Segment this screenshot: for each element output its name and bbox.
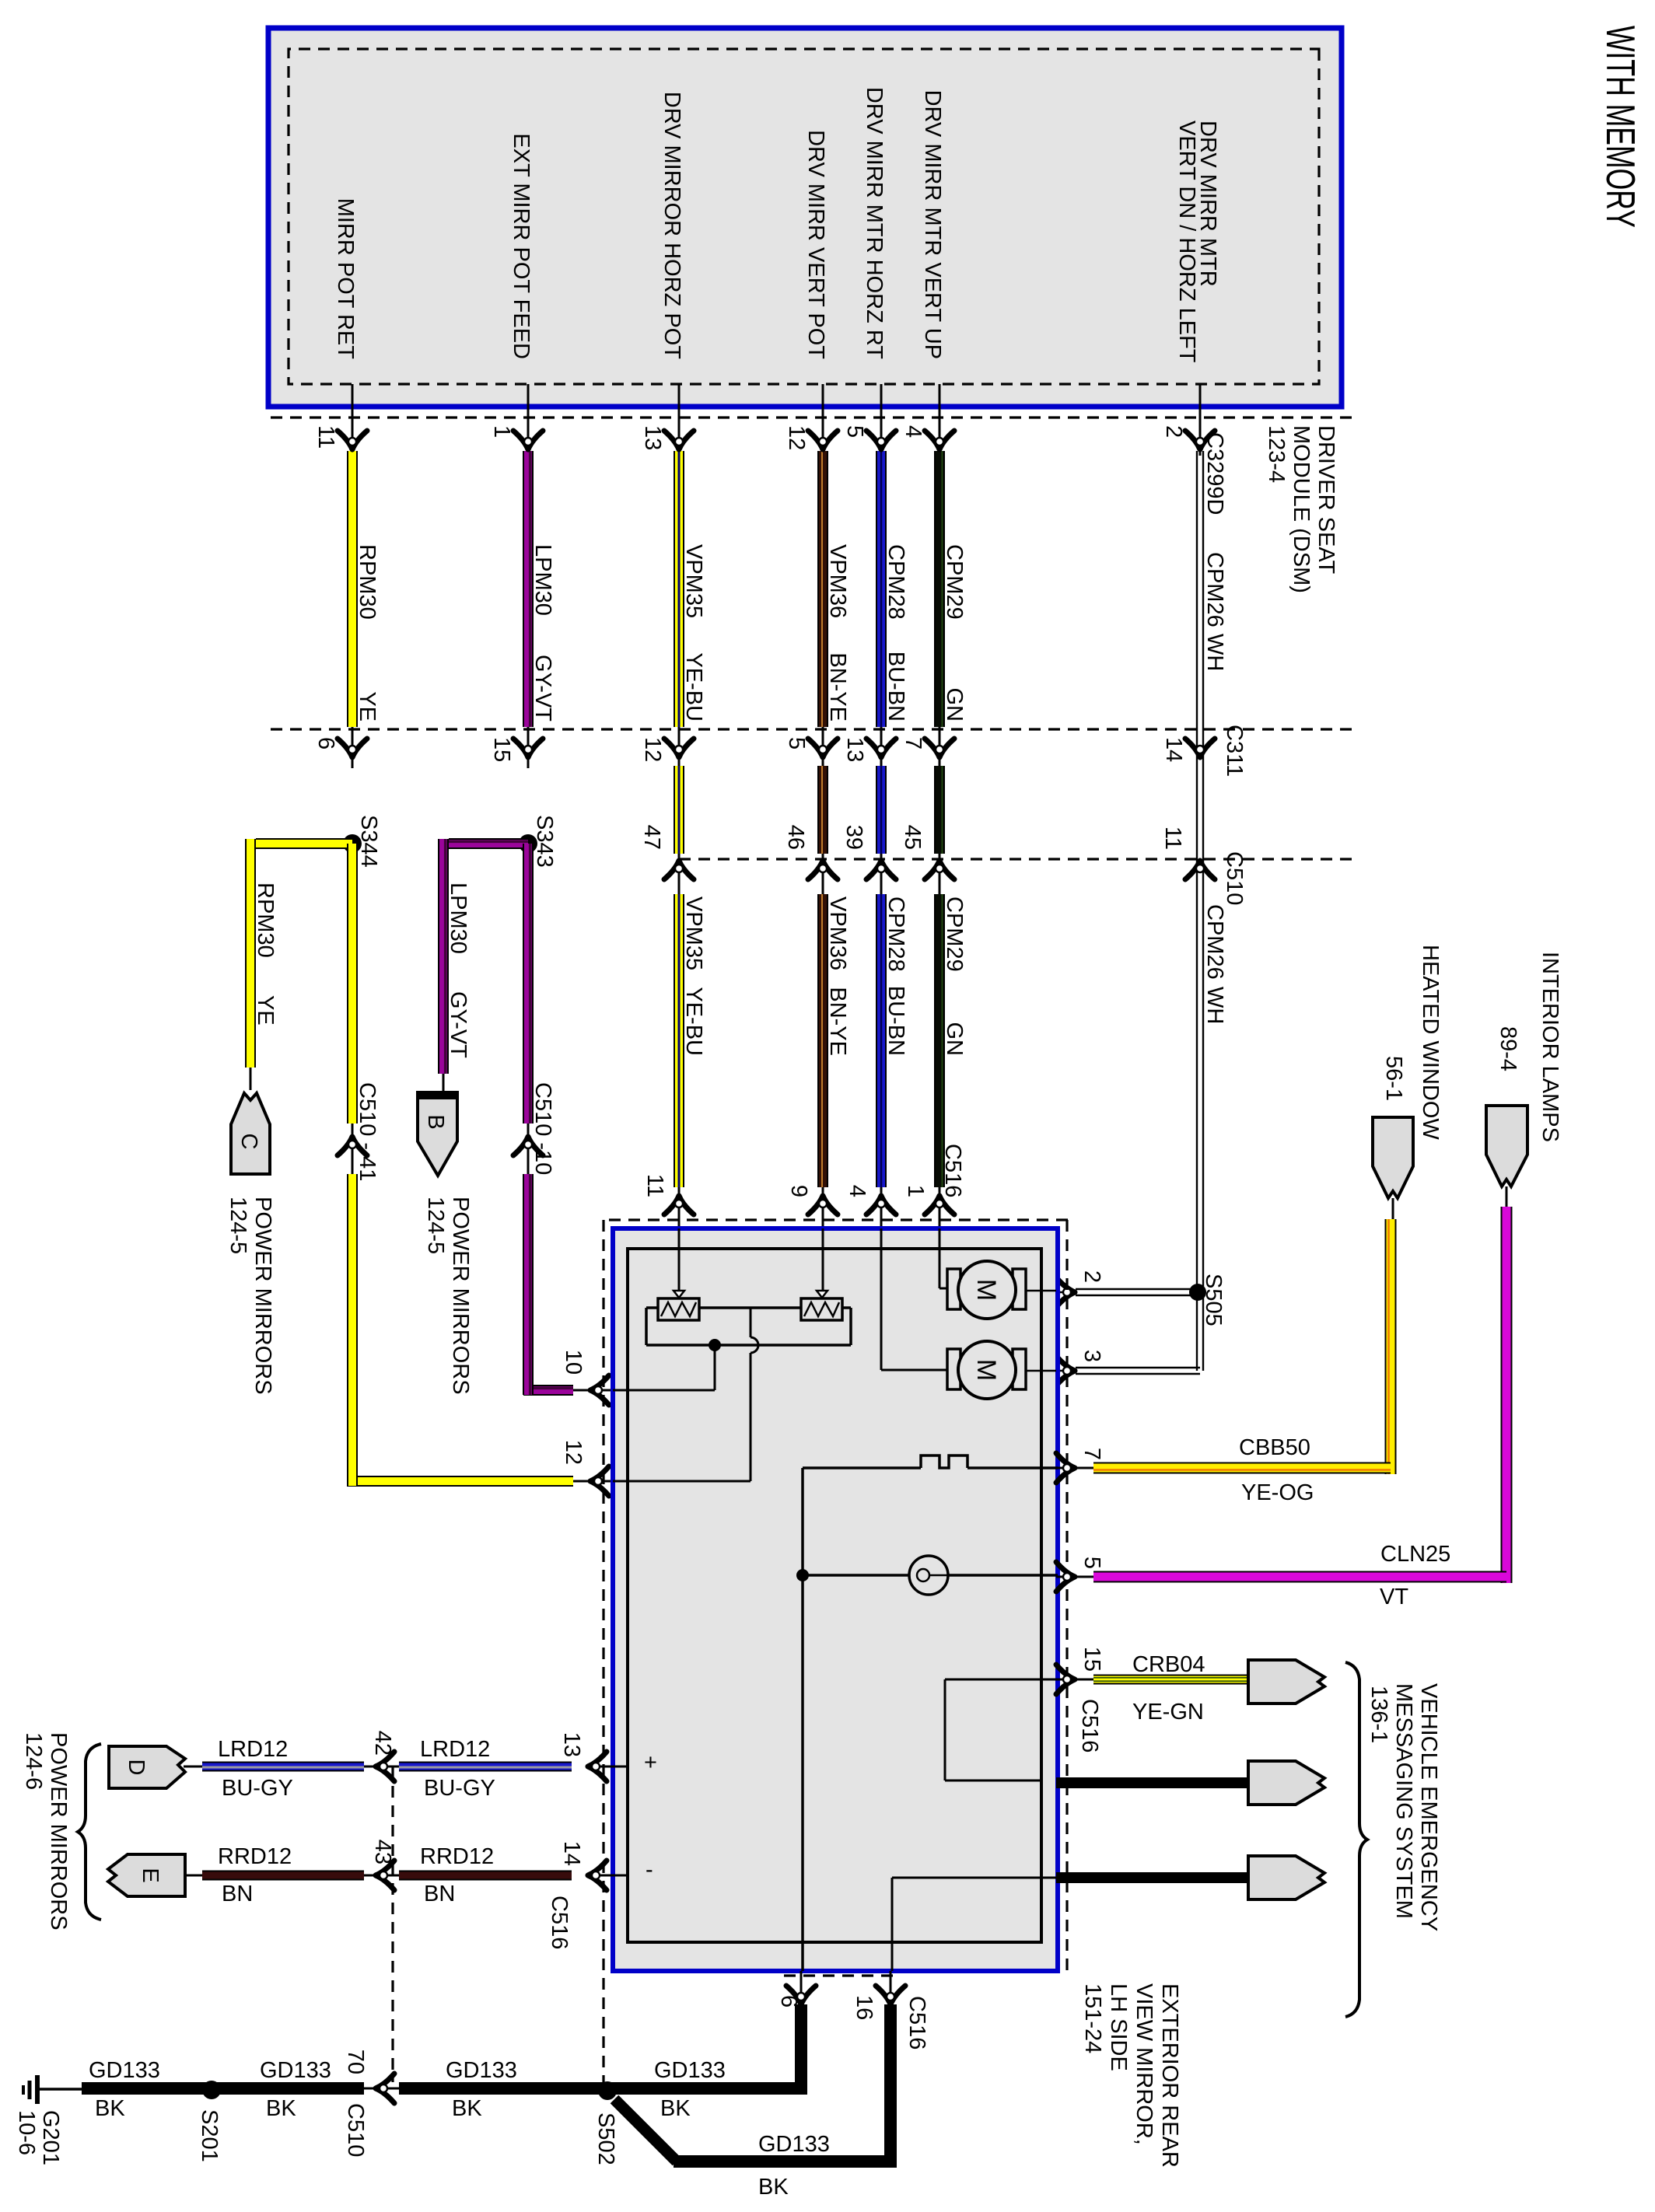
splice S344 (343, 834, 362, 853)
svg-text:123-4: 123-4 (1264, 425, 1289, 483)
wire pot interconnect (699, 1306, 801, 1309)
module Exterior Rear View Mirror box (613, 1228, 1058, 1971)
wire CPM28 BU-BN from DSM (880, 384, 883, 456)
svg-text:124-5: 124-5 (423, 1197, 448, 1254)
svg-text:MESSAGING SYSTEM: MESSAGING SYSTEM (1391, 1683, 1416, 1919)
svg-text:12: 12 (784, 425, 809, 450)
svg-text:BK: BK (758, 2175, 789, 2200)
svg-text:C510 - 41: C510 - 41 (355, 1082, 380, 1181)
svg-text:10-6: 10-6 (14, 2110, 39, 2155)
svg-text:151-24: 151-24 (1080, 1983, 1105, 2053)
junction dot pot loop (709, 1339, 721, 1351)
wire CPM29 GN from DSM (939, 384, 941, 456)
splice S201 (202, 2081, 221, 2099)
svg-text:C510: C510 (1222, 851, 1247, 905)
svg-text:10: 10 (561, 1350, 586, 1375)
wire LPM30 GY-VT to pin 10 (523, 844, 534, 1123)
motor M1 (vert) (1013, 1269, 1026, 1309)
svg-text:11: 11 (642, 1174, 667, 1197)
svg-text:EXTERIOR REAR: EXTERIOR REAR (1157, 1983, 1182, 2168)
svg-text:D: D (124, 1759, 149, 1776)
svg-text:12: 12 (640, 737, 665, 762)
wire CPM26 WH white double-line (1199, 384, 1202, 456)
connector D (109, 1746, 185, 1788)
svg-text:WH: WH (1202, 987, 1227, 1024)
svg-text:15: 15 (1079, 1647, 1104, 1672)
module DSM inner dashed boundary (289, 49, 1319, 384)
svg-text:HEATED WINDOW: HEATED WINDOW (1418, 945, 1443, 1140)
svg-text:POWER MIRRORS: POWER MIRRORS (250, 1197, 275, 1395)
svg-text:DRIVER SEAT: DRIVER SEAT (1314, 425, 1338, 575)
svg-text:DRV MIRROR HORZ POT: DRV MIRROR HORZ POT (660, 92, 684, 360)
svg-text:C311: C311 (1222, 725, 1247, 777)
svg-text:3: 3 (1079, 1350, 1104, 1362)
wire RPM30 branch to C (256, 838, 352, 849)
connector VEMS 1 (1248, 1660, 1324, 1704)
svg-text:BU-BN: BU-BN (883, 652, 908, 722)
svg-text:LRD12: LRD12 (218, 1737, 288, 1762)
potentiometer vertical (pin9 wiper) (822, 1228, 824, 1292)
svg-text:2: 2 (1079, 1270, 1104, 1283)
svg-text:VERT DN / HORZ LEFT: VERT DN / HORZ LEFT (1174, 121, 1199, 363)
svg-text:EXT MIRR POT FEED: EXT MIRR POT FEED (509, 133, 534, 359)
wire pot loop (842, 1306, 851, 1309)
svg-text:DRV MIRR VERT POT: DRV MIRR VERT POT (803, 130, 828, 359)
svg-text:-: - (646, 1857, 653, 1882)
svg-text:39: 39 (841, 825, 866, 850)
wire motor M2 to pin3 (1026, 1370, 1056, 1372)
wire pin4 to motor M2 (880, 1228, 883, 1370)
wire LPM30 branch to B (449, 838, 528, 849)
svg-text:BN-YE: BN-YE (825, 987, 850, 1056)
wire VEMS2 black (1056, 1777, 1248, 1788)
svg-text:VIEW MIRROR,: VIEW MIRROR, (1132, 1983, 1156, 2145)
svg-text:5: 5 (842, 425, 867, 438)
svg-text:5: 5 (784, 737, 809, 750)
svg-text:42: 42 (370, 1731, 395, 1756)
svg-text:45: 45 (900, 825, 925, 850)
module DSM (Driver Seat Module) box (268, 28, 1342, 407)
svg-text:BK: BK (95, 2096, 125, 2121)
svg-text:RPM30: RPM30 (355, 544, 380, 620)
svg-text:BN: BN (222, 1882, 253, 1906)
svg-text:POWER MIRRORS: POWER MIRRORS (448, 1197, 473, 1395)
brace VEMS (1345, 1662, 1367, 2017)
svg-text:C510: C510 (343, 2103, 368, 2157)
svg-text:RRD12: RRD12 (218, 1844, 292, 1869)
svg-text:C3299D: C3299D (1202, 432, 1227, 515)
svg-text:YE-BU: YE-BU (681, 652, 706, 722)
svg-text:YE-BU: YE-BU (681, 987, 706, 1056)
svg-text:CLN25: CLN25 (1380, 1542, 1450, 1567)
svg-text:CPM26: CPM26 (1202, 904, 1227, 980)
svg-text:MODULE (DSM): MODULE (DSM) (1289, 425, 1314, 593)
svg-text:14: 14 (559, 1841, 584, 1866)
svg-text:7: 7 (1079, 1448, 1104, 1460)
wire lamp line (803, 1574, 1058, 1577)
svg-text:VPM35: VPM35 (681, 896, 706, 970)
connector INTERIOR LAMPS (1486, 1106, 1527, 1186)
svg-text:46: 46 (783, 825, 808, 850)
svg-text:CBB50: CBB50 (1239, 1435, 1310, 1460)
svg-text:15: 15 (489, 737, 514, 762)
wire pin14 stub minus (613, 1875, 628, 1877)
wire VPM35 YE-BU from DSM (678, 384, 681, 456)
svg-text:YE: YE (355, 691, 380, 722)
svg-text:6: 6 (776, 1995, 801, 2008)
svg-text:GD133: GD133 (758, 2132, 830, 2157)
svg-text:CPM26: CPM26 (1202, 552, 1227, 627)
svg-text:13: 13 (842, 737, 867, 762)
connector C311 dashed line (264, 728, 1352, 730)
svg-text:C516: C516 (904, 1996, 929, 2050)
svg-text:G201: G201 (38, 2110, 63, 2165)
svg-text:13: 13 (640, 425, 665, 450)
svg-text:C510 -10: C510 -10 (530, 1082, 555, 1175)
svg-text:CRB04: CRB04 (1132, 1652, 1205, 1677)
svg-text:BK: BK (660, 2096, 691, 2121)
svg-text:11: 11 (313, 425, 338, 449)
svg-text:14: 14 (1161, 737, 1186, 762)
wire RPM30 YE to pin 12 (347, 844, 358, 1123)
svg-text:S201: S201 (197, 2109, 222, 2162)
svg-text:4: 4 (845, 1185, 869, 1197)
svg-text:BN-YE: BN-YE (825, 652, 850, 722)
svg-text:GN: GN (942, 1022, 967, 1057)
connector HEATED WINDOW (1373, 1117, 1413, 1198)
svg-text:YE: YE (253, 995, 278, 1026)
wire heater to lamp junction (801, 1468, 804, 1575)
svg-text:12: 12 (561, 1440, 586, 1465)
connector VEMS 2 (1248, 1761, 1324, 1805)
wire GD133 main (399, 2082, 807, 2095)
svg-text:WH: WH (1202, 634, 1227, 671)
svg-text:11: 11 (1160, 826, 1185, 850)
svg-text:VPM35: VPM35 (681, 544, 706, 618)
wire pin6 to ground (801, 1575, 804, 1971)
svg-text:RPM30: RPM30 (253, 882, 278, 958)
wire LRD12 BU-GY (399, 1762, 572, 1772)
svg-text:YE-GN: YE-GN (1132, 1700, 1204, 1725)
motor M2 (horz) (1013, 1349, 1026, 1389)
svg-text:LRD12: LRD12 (420, 1737, 490, 1762)
connector E (108, 1854, 185, 1896)
brace D/E connectors (78, 1744, 101, 1920)
svg-text:DRV MIRR MTR VERT UP: DRV MIRR MTR VERT UP (920, 90, 945, 359)
wire VEMS3 black (1056, 1872, 1248, 1883)
svg-text:C516: C516 (547, 1896, 572, 1949)
svg-text:GD133: GD133 (260, 2058, 331, 2083)
heater element wire (967, 1466, 1058, 1469)
splice S505 (1189, 1284, 1206, 1301)
svg-text:43: 43 (370, 1840, 395, 1864)
svg-text:LPM30: LPM30 (530, 544, 555, 616)
svg-text:BU-GY: BU-GY (424, 1776, 495, 1801)
svg-text:1: 1 (903, 1185, 928, 1197)
svg-text:M: M (971, 1279, 1001, 1301)
wire VPM36 BN-YE from DSM (822, 384, 824, 456)
wire pin16 internal (892, 1877, 1058, 1879)
connector VEMS 3 (1248, 1856, 1324, 1899)
svg-text:VT: VT (1380, 1585, 1408, 1609)
svg-text:C: C (236, 1134, 261, 1150)
potentiometer horizontal (pin11 wiper) (678, 1228, 681, 1292)
svg-text:2: 2 (1161, 425, 1186, 438)
wire CBB50 YE-OG (1392, 1198, 1394, 1221)
svg-text:GY-VT: GY-VT (446, 991, 471, 1058)
svg-text:DRV MIRR MTR HORZ RT: DRV MIRR MTR HORZ RT (862, 87, 887, 359)
svg-text:6: 6 (313, 737, 338, 750)
wire RRD12 BN (399, 1871, 572, 1881)
svg-text:VPM36: VPM36 (825, 896, 850, 970)
svg-text:GD133: GD133 (89, 2058, 160, 2083)
svg-text:89-4: 89-4 (1496, 1026, 1520, 1071)
lamp symbol (909, 1556, 948, 1595)
wire motor M1 to pin2 (1026, 1290, 1056, 1292)
svg-text:CPM29: CPM29 (942, 896, 967, 972)
svg-text:13: 13 (559, 1732, 584, 1757)
svg-text:BU-BN: BU-BN (883, 986, 908, 1056)
connector C510 lower dashed (391, 1766, 394, 2082)
svg-text:M: M (971, 1359, 1001, 1381)
svg-text:5: 5 (1079, 1557, 1104, 1569)
svg-text:CPM28: CPM28 (883, 544, 908, 620)
svg-text:124-6: 124-6 (21, 1732, 46, 1790)
connector C in-line (231, 1093, 270, 1174)
svg-text:LPM30: LPM30 (446, 882, 471, 954)
svg-text:C516: C516 (940, 1144, 965, 1197)
svg-text:INTERIOR LAMPS: INTERIOR LAMPS (1538, 952, 1562, 1142)
splice S502 (598, 2081, 617, 2100)
svg-text:124-5: 124-5 (226, 1197, 250, 1254)
wire pin12 internal with hop (613, 1480, 751, 1483)
svg-text:GY-VT: GY-VT (530, 655, 555, 722)
svg-text:S344: S344 (356, 815, 381, 868)
wire pin16 to S502 (890, 1971, 892, 2006)
svg-text:4: 4 (901, 425, 925, 438)
svg-text:WITH MEMORY: WITH MEMORY (1597, 26, 1643, 228)
svg-text:BN: BN (424, 1882, 455, 1906)
wire pin10 internal (714, 1345, 716, 1390)
connector C3299D dashed line (264, 416, 1352, 418)
svg-text:BK: BK (266, 2096, 296, 2121)
svg-text:70: 70 (343, 2050, 368, 2074)
connector C516 dashed boundary (603, 1218, 1068, 1221)
svg-text:CPM28: CPM28 (883, 896, 908, 972)
svg-text:47: 47 (639, 825, 664, 850)
wire pin1 to motor M1 (939, 1228, 941, 1288)
svg-text:S502: S502 (593, 2112, 618, 2165)
svg-text:16: 16 (852, 1995, 876, 2020)
ground G201 symbol (40, 2088, 82, 2091)
wire CLN25 VT (1506, 1186, 1508, 1210)
splice S343 (519, 834, 537, 853)
svg-text:VEHICLE EMERGENCY: VEHICLE EMERGENCY (1416, 1683, 1441, 1931)
svg-text:YE-OG: YE-OG (1241, 1480, 1314, 1505)
svg-text:S505: S505 (1201, 1274, 1226, 1326)
svg-text:GN: GN (942, 688, 967, 722)
svg-text:BU-GY: BU-GY (222, 1776, 293, 1801)
wire pin13 stub plus (613, 1766, 628, 1768)
svg-text:B: B (423, 1114, 448, 1129)
svg-text:VPM36: VPM36 (825, 544, 850, 618)
svg-text:+: + (644, 1750, 657, 1775)
svg-text:MIRR POT RET: MIRR POT RET (333, 198, 358, 360)
wire LPM30 GY-VT from DSM (527, 384, 530, 456)
svg-text:56-1: 56-1 (1381, 1056, 1406, 1101)
wire pin15 internal U (945, 1679, 1058, 1681)
svg-text:1: 1 (489, 425, 514, 438)
connector C510 dashed line (677, 858, 1352, 860)
wire RPM30 YE from DSM (352, 384, 354, 456)
connector B in-line (418, 1092, 457, 1176)
svg-text:9: 9 (786, 1185, 811, 1197)
svg-text:CPM29: CPM29 (942, 544, 967, 620)
junction dot lamp/pin6 (796, 1569, 809, 1581)
wire CRB04 YE-GN (1093, 1675, 1248, 1685)
svg-text:7: 7 (901, 737, 925, 750)
mirror box inner border (628, 1249, 1041, 1942)
svg-text:GD133: GD133 (446, 2058, 517, 2083)
svg-text:RRD12: RRD12 (420, 1844, 494, 1869)
svg-text:S343: S343 (532, 815, 557, 868)
svg-text:BK: BK (452, 2096, 482, 2121)
svg-text:GD133: GD133 (654, 2058, 726, 2083)
svg-text:LH SIDE: LH SIDE (1106, 1983, 1131, 2071)
svg-text:136-1: 136-1 (1366, 1686, 1391, 1743)
svg-text:E: E (138, 1868, 163, 1882)
svg-text:POWER MIRRORS: POWER MIRRORS (46, 1732, 71, 1931)
svg-text:C516: C516 (1077, 1699, 1102, 1752)
